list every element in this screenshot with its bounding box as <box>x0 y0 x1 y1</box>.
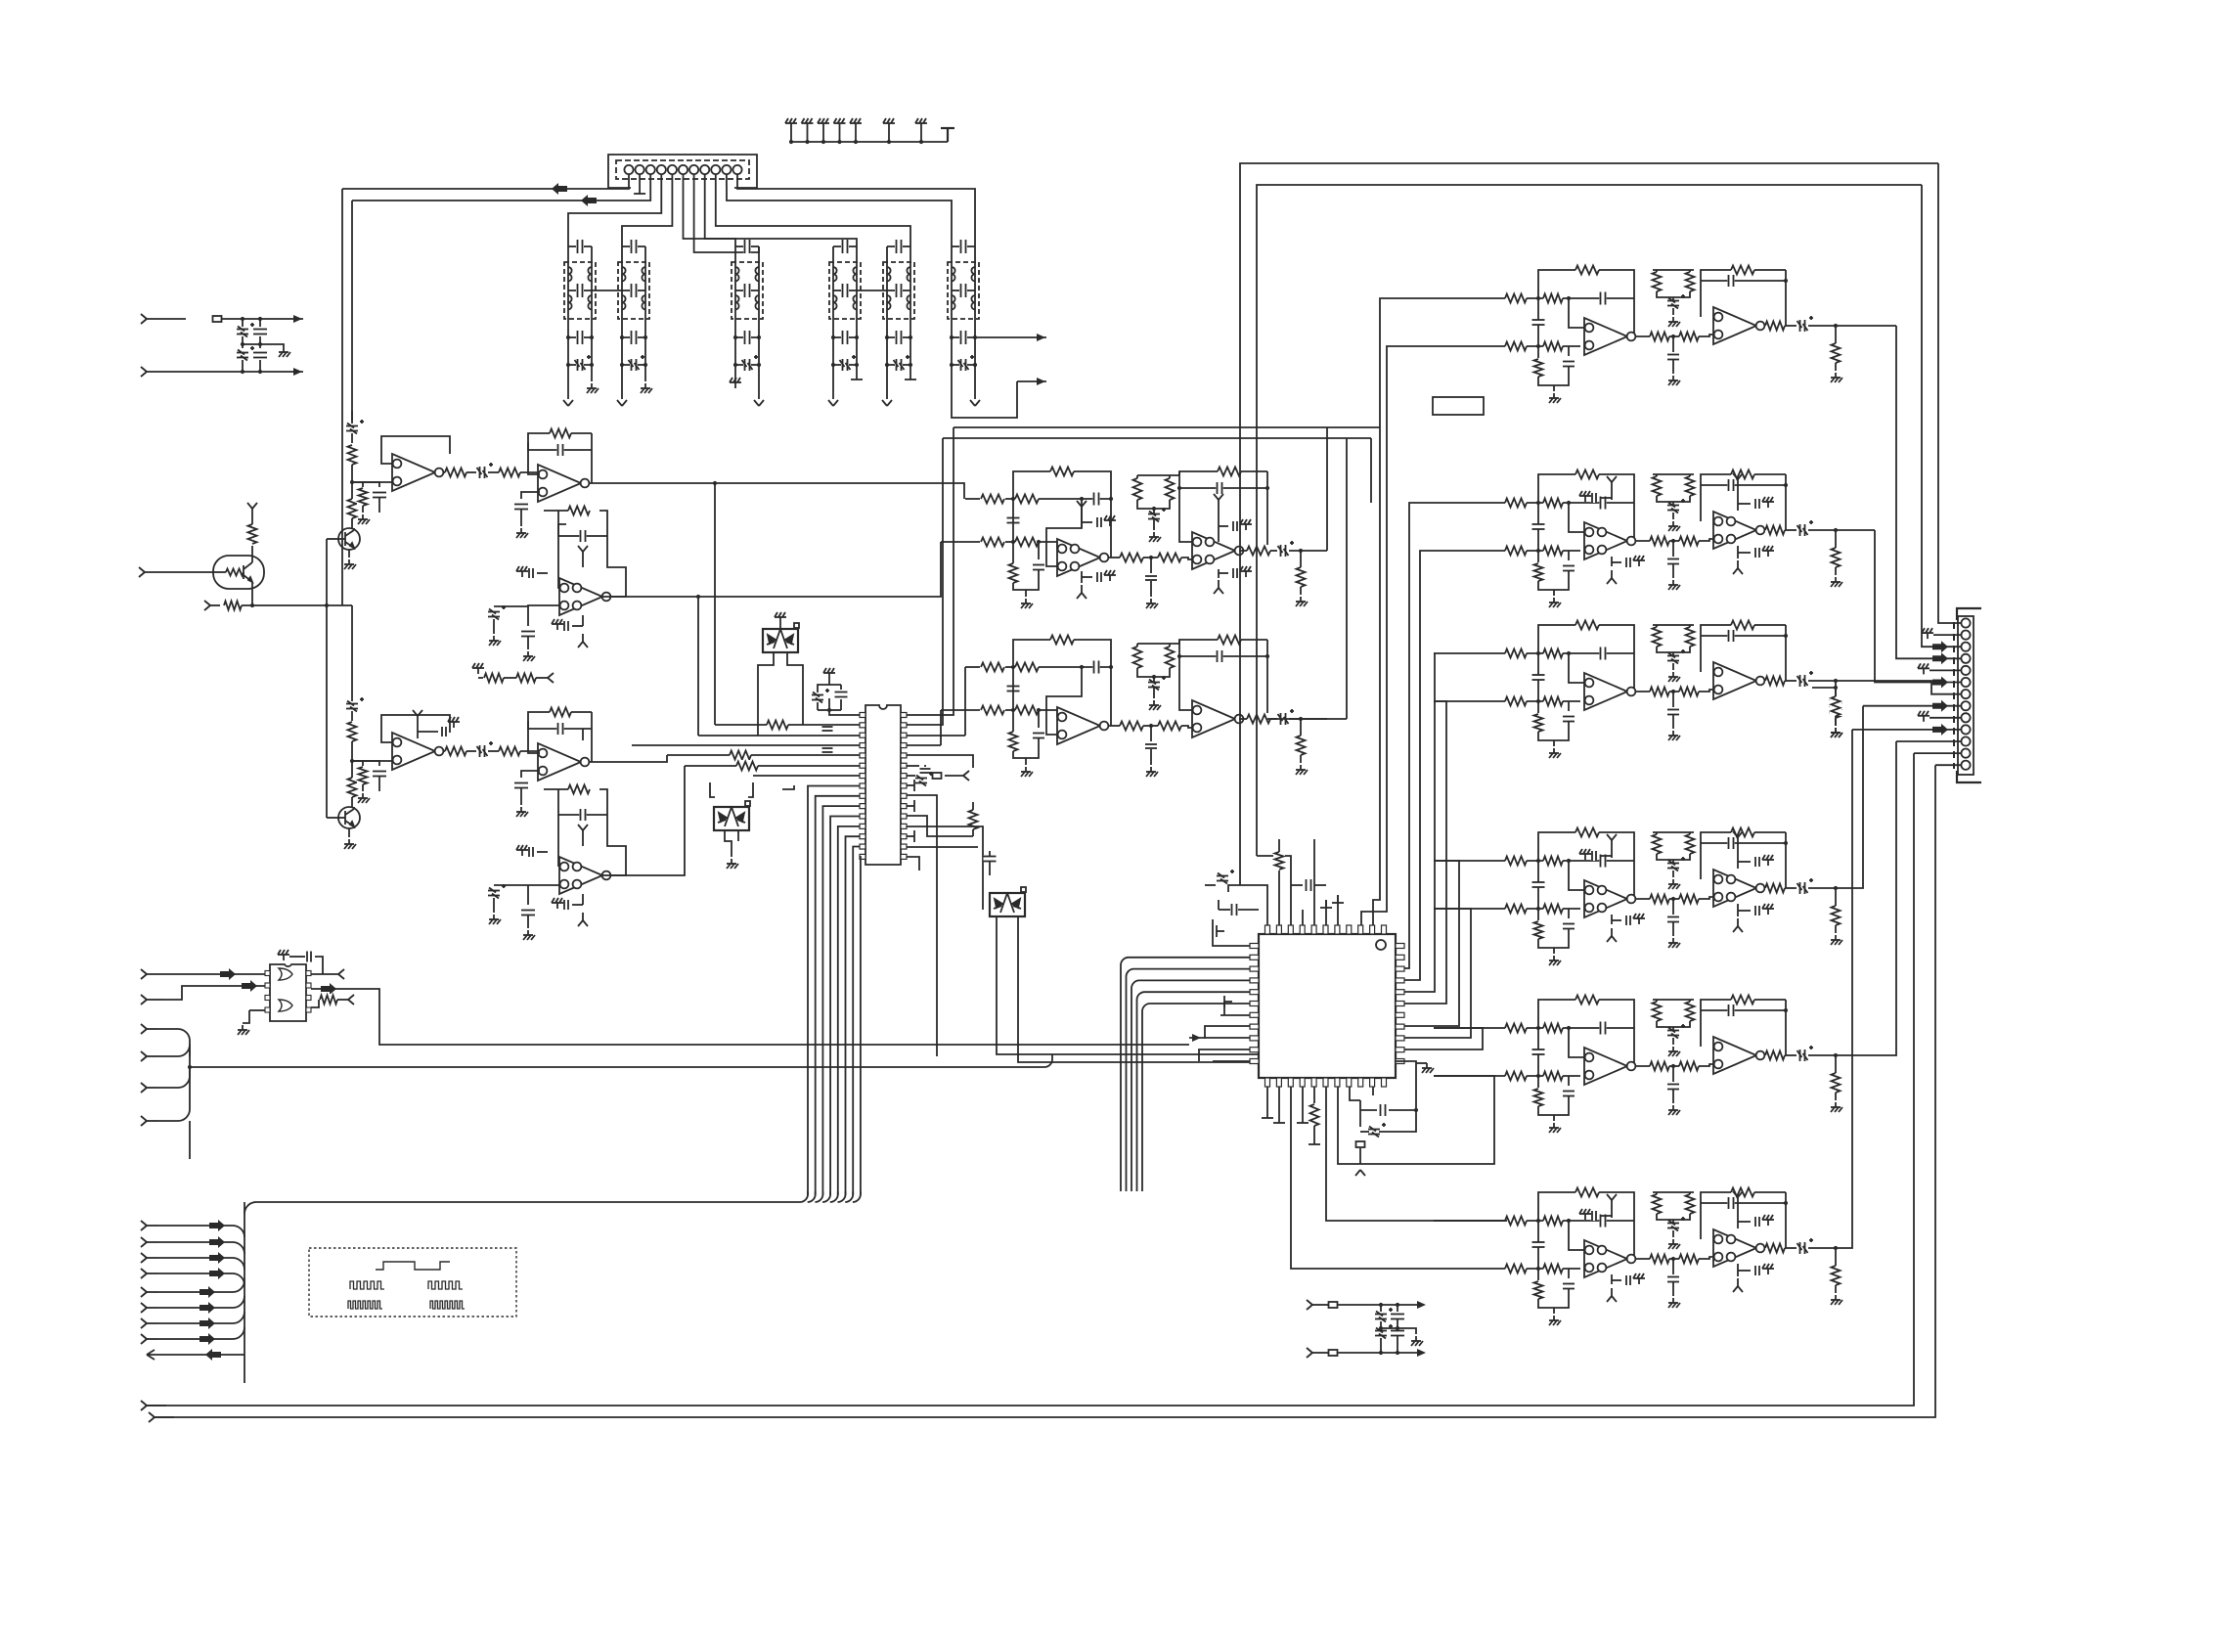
capacitor C41 <box>514 781 528 788</box>
wire <box>1669 1258 1681 1260</box>
wire <box>1835 716 1837 726</box>
IC U5 right pin 5 <box>901 753 907 758</box>
supply arrow <box>1077 501 1087 514</box>
wire <box>1360 1131 1369 1133</box>
wire filter left column <box>734 246 736 365</box>
junction <box>1011 708 1015 712</box>
capacitor C11 <box>743 331 750 344</box>
wire <box>845 1191 853 1202</box>
wire <box>1537 551 1539 562</box>
wire U5 right11 <box>907 826 983 910</box>
wire <box>1672 1282 1674 1296</box>
wire OpB out long <box>592 483 964 499</box>
wire <box>337 999 348 1001</box>
waveform 3a <box>348 1301 382 1309</box>
wire fb join <box>591 433 593 483</box>
wire connector fan <box>716 186 910 246</box>
wire <box>536 677 548 679</box>
wire <box>1835 718 1837 726</box>
signal arrow <box>1932 724 1948 736</box>
wire <box>1302 1087 1304 1115</box>
wire <box>808 1191 816 1202</box>
wire row1 route <box>1836 325 1896 327</box>
filter module FL6 shield box <box>948 262 979 319</box>
resistor R75 <box>1505 647 1527 659</box>
ground <box>1668 1239 1680 1249</box>
wire <box>1359 1148 1361 1164</box>
capacitor C13 <box>841 240 848 253</box>
capacitor C70 <box>1305 879 1311 891</box>
capacitor C54 <box>1033 563 1044 570</box>
wire <box>1397 1328 1416 1334</box>
wire <box>735 336 743 338</box>
junction <box>855 363 859 367</box>
wire <box>952 336 959 338</box>
wire <box>945 775 963 777</box>
wire <box>378 777 380 791</box>
wire <box>1359 1100 1361 1127</box>
wire <box>1835 530 1837 548</box>
bus wire B <box>351 201 353 421</box>
op-amp U10 <box>1713 662 1764 699</box>
wire U5 right9 down <box>907 795 937 1056</box>
ground <box>1668 1298 1680 1308</box>
wire <box>1672 502 1674 505</box>
wire <box>1136 644 1138 647</box>
ground <box>1831 373 1842 382</box>
IC U5 left pin 7 <box>860 774 865 779</box>
wire <box>1835 326 1837 343</box>
wire <box>1270 718 1277 720</box>
junction <box>1671 1257 1675 1261</box>
wire <box>242 336 244 348</box>
junction <box>241 317 244 321</box>
ground <box>552 898 563 909</box>
resistor R29 <box>1131 478 1143 500</box>
wire <box>1635 1065 1652 1067</box>
IC U6 bottom pin 4 <box>1300 1078 1305 1087</box>
terminal <box>907 800 914 812</box>
inductor L7 <box>642 267 645 281</box>
IC U7 right pin 3 <box>306 996 311 1001</box>
wire <box>520 788 522 805</box>
IC U6 bottom pin 11 <box>1382 1078 1387 1087</box>
wire <box>351 471 353 499</box>
resistor R128 <box>320 994 337 1005</box>
wire filter right column <box>974 246 976 365</box>
ground <box>1831 935 1842 945</box>
wire <box>1143 557 1158 558</box>
wire to J2 pin1 <box>1938 163 1961 623</box>
connector J1 pin 10 <box>722 165 731 174</box>
capacitor C15 <box>841 331 848 344</box>
capacitor C19 <box>895 331 902 344</box>
wire <box>1380 1338 1382 1353</box>
junction <box>757 335 761 339</box>
capacitor C29 <box>373 491 386 498</box>
feedback wire2 <box>528 721 592 729</box>
electrolytic capacitor <box>488 884 506 899</box>
wire <box>1785 680 1797 682</box>
junction <box>1784 1008 1788 1012</box>
resistor R38 <box>1050 634 1074 646</box>
wire <box>1569 861 1584 890</box>
ground <box>516 845 528 856</box>
junction <box>1011 497 1015 501</box>
wire <box>1381 1327 1397 1329</box>
resistor R103 <box>1505 1070 1527 1082</box>
electrolytic capacitor C39 <box>477 741 494 757</box>
capacitor C37 <box>373 770 386 777</box>
wire <box>1611 1274 1613 1284</box>
IC U6 right pin 6 <box>1396 1002 1404 1006</box>
electrolytic capacitor C102 <box>1667 857 1685 871</box>
junction <box>566 335 570 339</box>
wire <box>782 785 794 789</box>
transistor Q1 package <box>213 556 264 589</box>
wire OpC branch down <box>697 597 699 736</box>
junction <box>1567 651 1571 655</box>
input port <box>141 1024 158 1034</box>
wire <box>311 1000 319 1007</box>
signal arrow <box>200 1302 215 1314</box>
wire to J2 pin8 <box>1863 705 1961 707</box>
wire <box>1672 308 1674 315</box>
capacitor C98 <box>1599 855 1606 868</box>
wire <box>1569 1027 1634 1029</box>
waveform 2b <box>428 1281 463 1289</box>
ground <box>1918 711 1930 722</box>
wire <box>1379 1110 1416 1132</box>
feedback wire <box>1538 474 1634 541</box>
wire <box>1553 590 1555 596</box>
wire <box>735 364 743 366</box>
electrolytic capacitor C4 <box>575 355 592 371</box>
capacitor C123 <box>1625 1275 1631 1285</box>
resistor R12 <box>357 767 369 784</box>
resistor R23 <box>981 536 1004 548</box>
feeder wire r5a <box>1404 1028 1483 1049</box>
wire <box>1653 999 1694 1001</box>
wire <box>166 973 265 975</box>
resistor R80 <box>1532 714 1544 732</box>
op-amp U7 <box>1584 522 1635 559</box>
wire U5 pin15 down <box>859 857 862 1195</box>
supply arrow <box>1733 1278 1743 1292</box>
wire <box>887 336 895 338</box>
wire <box>1039 710 1057 717</box>
ground <box>238 1025 249 1035</box>
wire <box>1012 710 1014 732</box>
IC U6 bottom pin 5 <box>1311 1078 1316 1087</box>
feedback wire <box>1701 832 1786 879</box>
ground <box>516 528 528 538</box>
resistor R45 <box>1247 713 1270 725</box>
ground <box>1668 938 1680 948</box>
capacitor C27 <box>253 351 267 358</box>
supply arrow OpC <box>578 546 588 559</box>
wire U6 left7 <box>1220 1014 1250 1016</box>
wire <box>1143 725 1158 727</box>
wire <box>557 511 559 536</box>
op-amp U8 <box>1713 512 1764 549</box>
resistor R85 <box>1731 619 1754 631</box>
wire <box>1808 529 1836 531</box>
wire row in1 <box>1434 860 1569 862</box>
wire <box>757 685 759 736</box>
terminal <box>1297 1115 1309 1123</box>
wire <box>840 699 842 710</box>
electrolytic capacitor C90 <box>1797 520 1814 536</box>
feedback wire U1B <box>528 433 592 474</box>
wire <box>1835 1055 1837 1073</box>
resistor R77 <box>1505 695 1527 707</box>
wire <box>591 712 593 762</box>
wire <box>1738 910 1751 912</box>
capacitor C66 <box>1145 743 1157 749</box>
wire <box>348 550 350 558</box>
junction <box>1834 324 1838 328</box>
ground <box>730 378 741 388</box>
resistor R58 <box>1684 272 1696 291</box>
junction <box>1671 897 1675 901</box>
wire <box>1266 471 1268 551</box>
connector J2 pin 2 <box>1961 631 1970 640</box>
resistor R54 <box>1532 359 1544 377</box>
wire <box>1537 1248 1539 1270</box>
resistor R70 <box>1651 476 1663 496</box>
wire <box>967 336 975 338</box>
IC U5 left pin 14 <box>860 844 865 849</box>
wire row4 route <box>1836 706 1863 888</box>
capacitor C30 <box>556 444 563 456</box>
resistor R35 <box>1015 661 1039 673</box>
feeder wire r1a <box>1373 298 1434 925</box>
inductor L14 <box>833 295 837 309</box>
wire <box>735 290 743 291</box>
ground <box>1633 556 1645 566</box>
wire <box>1044 1054 1052 1067</box>
IC U6 top pin 8 <box>1347 925 1352 934</box>
wire <box>544 510 568 512</box>
resistor R98 <box>1731 826 1754 838</box>
wire U6 left pin6 <box>1142 1004 1250 1191</box>
electrolytic capacitor C36 <box>346 697 364 712</box>
resistor fb OpC <box>568 505 590 516</box>
ground <box>834 118 846 129</box>
wire <box>1005 666 1015 668</box>
resistor R79 <box>1575 619 1599 631</box>
input port <box>141 1253 158 1263</box>
ferrite bead FB1 <box>213 316 222 322</box>
wire <box>737 830 739 841</box>
resistor R56 <box>1679 331 1699 342</box>
wire <box>1314 884 1326 886</box>
wire <box>584 364 592 366</box>
terminal <box>1332 895 1344 903</box>
input port IN2 <box>204 601 220 610</box>
photo-interrupter PC3 <box>990 887 1026 916</box>
wire <box>1082 576 1092 578</box>
junction <box>1567 501 1571 505</box>
wire <box>1672 1066 1674 1082</box>
resistor R107 <box>1650 1060 1669 1072</box>
electrolytic capacitor C16 <box>840 355 857 371</box>
wire <box>1569 653 1584 683</box>
inductor L16 <box>853 295 857 309</box>
ground <box>552 619 563 630</box>
ground <box>802 118 814 129</box>
capacitor C101 <box>1667 915 1679 922</box>
ground <box>915 118 927 129</box>
wire <box>443 471 467 473</box>
resistor R65 <box>1543 545 1563 557</box>
ferrite bead <box>933 773 942 779</box>
resistor R90 <box>1505 903 1527 915</box>
wire <box>158 1280 244 1292</box>
ground <box>1579 1209 1591 1220</box>
wire <box>572 625 583 627</box>
wire <box>735 246 743 247</box>
wire <box>1764 1247 1767 1249</box>
wire <box>352 482 363 487</box>
wire <box>622 290 630 291</box>
ground <box>344 839 356 849</box>
wire <box>1612 919 1621 921</box>
wire <box>1689 625 1691 627</box>
ground <box>1633 1273 1645 1284</box>
wire <box>1656 1000 1658 1002</box>
IC U5 right pin 6 <box>901 763 907 768</box>
wire U6 top7 <box>1337 895 1339 925</box>
wire U5 right4 <box>907 744 941 746</box>
wire filter right column <box>758 246 760 365</box>
junction <box>1567 1026 1571 1030</box>
IC U6 right pin 4 <box>1396 978 1404 983</box>
wire <box>1699 335 1713 336</box>
IC U6 top pin 4 <box>1300 925 1305 934</box>
ground <box>1549 1123 1561 1133</box>
wire <box>1611 915 1613 924</box>
wire <box>259 336 261 348</box>
wire <box>1568 909 1570 918</box>
inductor L10 <box>735 295 739 309</box>
junction <box>1109 665 1113 669</box>
capacitor C107 <box>1754 906 1760 915</box>
wire <box>1672 715 1674 729</box>
capacitor C76 <box>1667 353 1679 360</box>
IC U6 right pin 2 <box>1396 955 1404 960</box>
resistor R41 <box>1158 720 1181 732</box>
feeder wire r1b <box>1361 346 1434 925</box>
resistor R55 <box>1650 331 1669 342</box>
wire PC2 leg <box>725 830 732 857</box>
wire <box>351 797 353 807</box>
IC U7 right pin 2 <box>306 983 311 988</box>
wire <box>1380 1321 1382 1328</box>
wire <box>1270 550 1277 552</box>
arrow <box>1192 1034 1201 1042</box>
ground <box>1762 546 1774 557</box>
ground <box>1668 672 1680 682</box>
electrolytic capacitor <box>1368 1123 1386 1138</box>
junction <box>566 363 570 367</box>
ground <box>883 118 895 129</box>
wire U5 right6 <box>907 765 919 767</box>
wire <box>242 360 244 372</box>
wire <box>327 817 338 819</box>
wire U6 left pin4 <box>1131 980 1250 1191</box>
signal arrow <box>1932 652 1948 664</box>
feedback wire <box>1179 487 1267 489</box>
terminal <box>851 372 863 380</box>
wire J1 pin 3 stub <box>649 174 651 186</box>
resistor R30 <box>1164 478 1176 500</box>
IC U5 right pin 9 <box>901 793 907 798</box>
electrolytic capacitor C84 <box>1667 499 1685 513</box>
resistor R71 <box>1684 476 1696 496</box>
feedback wire <box>1179 655 1267 657</box>
wire <box>251 582 253 605</box>
IC U5 right pin 12 <box>901 824 907 828</box>
wire <box>418 731 438 733</box>
electrolytic capacitor C10 <box>477 463 494 478</box>
resistor R base <box>226 566 244 578</box>
wire <box>1300 587 1302 595</box>
wire filter out 2 <box>1017 380 1046 382</box>
resistor R67 <box>1532 563 1544 581</box>
IC U5 right pin 3 <box>901 733 907 737</box>
resistor R104 <box>1543 1070 1563 1082</box>
IC U5 left pin 5 <box>860 753 865 758</box>
wire <box>1005 498 1015 500</box>
resistor R48 <box>1309 1104 1320 1126</box>
wire <box>1635 540 1652 542</box>
wire <box>1568 551 1570 560</box>
capacitor C117 <box>1532 1241 1545 1248</box>
arrow <box>1417 1349 1426 1357</box>
wire <box>467 471 476 473</box>
resistor R101 <box>1505 1022 1527 1034</box>
junction <box>590 335 594 339</box>
capacitor C80 <box>1599 497 1606 510</box>
wire <box>351 711 353 721</box>
ground <box>641 383 652 393</box>
wire <box>1689 1000 1691 1002</box>
ground <box>489 636 501 646</box>
junction <box>1567 1219 1571 1223</box>
wire <box>584 290 592 291</box>
wire <box>1153 509 1155 513</box>
wire <box>1039 542 1057 549</box>
resistor R93 <box>1532 921 1544 939</box>
wire PC3 leg long <box>1018 916 1276 1062</box>
wire <box>849 364 857 366</box>
wire pin11 right <box>737 186 975 246</box>
capacitor C124 <box>1754 1217 1760 1227</box>
wire <box>1569 298 1584 328</box>
ground <box>1918 663 1930 674</box>
waveform 2a <box>350 1281 384 1289</box>
wire <box>1434 652 1435 654</box>
junction <box>1379 1351 1383 1355</box>
wire <box>599 789 607 815</box>
bus wire tail <box>189 1121 191 1159</box>
wire to J2 pin13 <box>1935 764 1961 766</box>
wire riser to block B in2 <box>940 710 942 745</box>
wire row6 route <box>1836 730 1852 1248</box>
junction <box>1671 1064 1675 1068</box>
